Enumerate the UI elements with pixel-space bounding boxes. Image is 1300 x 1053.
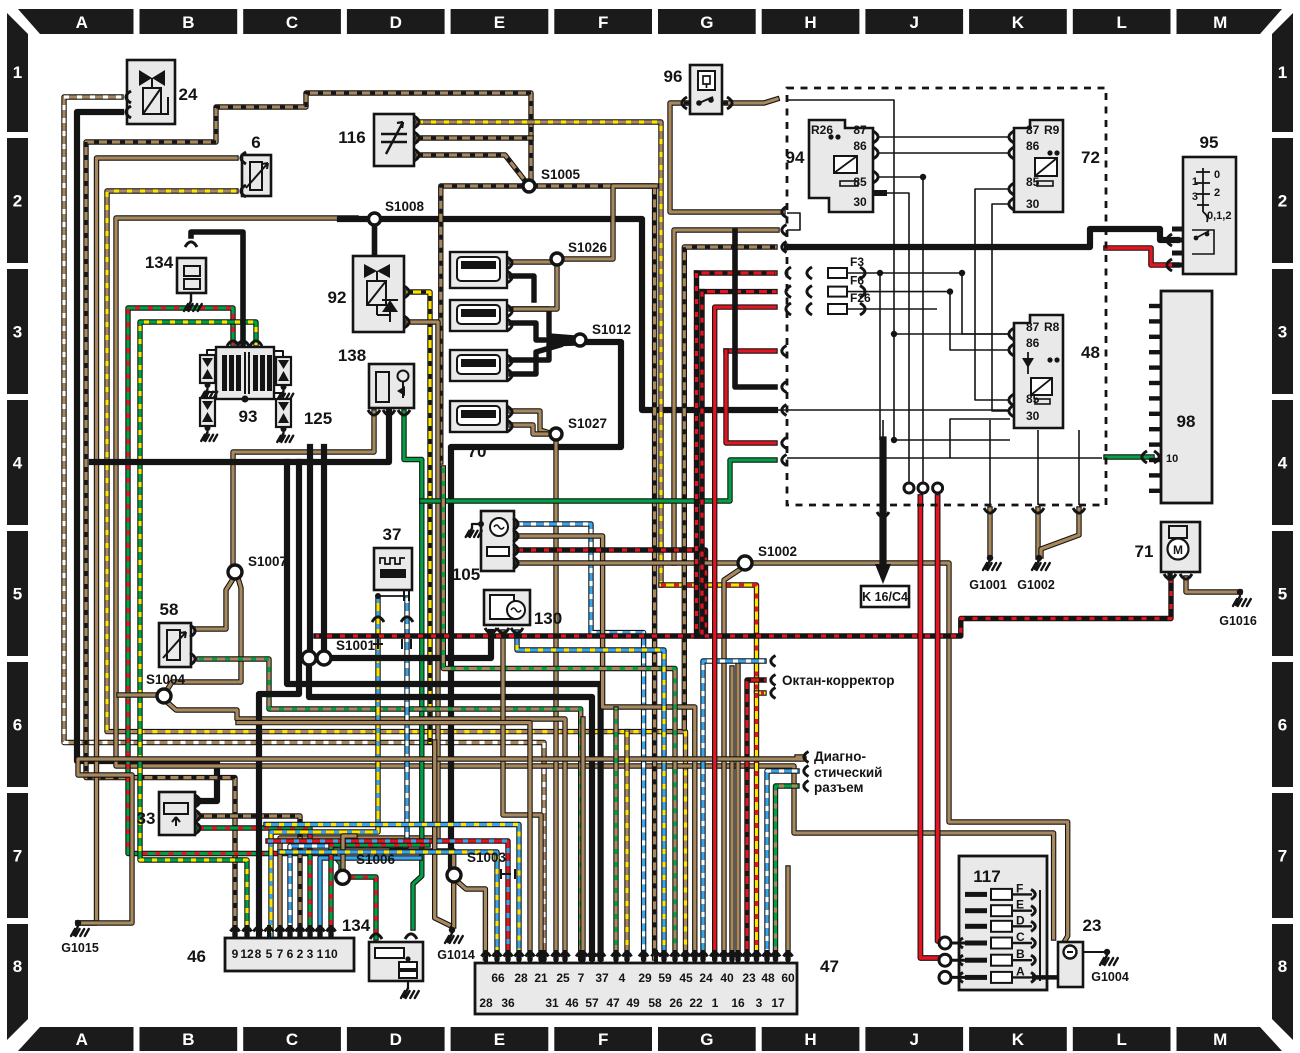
wire 105 pin3 red-black to junction bbox=[518, 550, 706, 636]
wire brown from S1008 down across to 23 bbox=[116, 218, 1054, 938]
svg-text:94: 94 bbox=[786, 148, 805, 167]
wire diode unit 125 c stem bbox=[283, 385, 285, 391]
relay 72 bbox=[1014, 120, 1063, 212]
wire 92 pin2 brown down to 46 pin5 bbox=[280, 322, 438, 938]
component 37 hall sender bbox=[374, 548, 412, 590]
svg-text:стический: стический bbox=[814, 765, 882, 780]
node S1003 bbox=[447, 868, 461, 882]
svg-text:86: 86 bbox=[853, 139, 867, 153]
svg-text:0: 0 bbox=[1214, 169, 1220, 181]
svg-text:K 16/C4: K 16/C4 bbox=[862, 590, 908, 604]
svg-text:G1016: G1016 bbox=[1219, 614, 1257, 628]
wire oktan1 blue-white bbox=[703, 661, 764, 958]
svg-text:48: 48 bbox=[761, 971, 775, 985]
svg-text:7: 7 bbox=[277, 947, 284, 961]
svg-text:48: 48 bbox=[1081, 343, 1100, 362]
wire 93 conn b bbox=[274, 351, 283, 357]
svg-text:J: J bbox=[910, 13, 919, 32]
node term2 bbox=[918, 483, 928, 493]
svg-text:87: 87 bbox=[1026, 123, 1040, 137]
fuse row B bbox=[965, 958, 987, 963]
wire red f26 feed and down to oktan/47 bbox=[715, 307, 775, 958]
svg-text:58: 58 bbox=[160, 600, 179, 619]
component 96 switch bbox=[690, 65, 722, 114]
wire brown S1004 left arm bbox=[119, 692, 158, 697]
wire brown 71 to G1016 bbox=[1186, 578, 1240, 592]
wire red 117 feed B bbox=[920, 497, 947, 958]
svg-text:6: 6 bbox=[251, 133, 260, 152]
wire 93 conn c bbox=[207, 392, 216, 398]
svg-text:S1012: S1012 bbox=[592, 322, 631, 337]
wire net f3 row bbox=[847, 273, 1010, 334]
wire inj4 pins to S1027 bbox=[511, 411, 550, 433]
wire row B arrow bbox=[1012, 959, 1032, 961]
svg-text:0,1,2: 0,1,2 bbox=[1207, 210, 1231, 222]
wire brown S1007 to 58 bbox=[196, 579, 233, 629]
wire red to 95 bbox=[1106, 248, 1177, 265]
svg-text:1: 1 bbox=[712, 996, 719, 1010]
wire black x310 to S1001 bbox=[307, 447, 313, 650]
svg-text:M: M bbox=[1213, 13, 1227, 32]
wire 95 sw bbox=[1196, 231, 1209, 238]
svg-text:12: 12 bbox=[240, 947, 254, 961]
wire 134a gnd stem bbox=[190, 293, 192, 301]
svg-text:117: 117 bbox=[973, 867, 1000, 886]
node S1008 bbox=[369, 213, 381, 225]
svg-text:24: 24 bbox=[699, 971, 713, 985]
svg-text:A: A bbox=[76, 1030, 88, 1049]
svg-text:R9: R9 bbox=[1044, 123, 1060, 137]
wire inj1 top pin to S1026 bbox=[511, 259, 551, 264]
svg-text:17: 17 bbox=[771, 996, 785, 1010]
ground diode unit 125 b gnd bbox=[201, 432, 217, 441]
svg-text:92: 92 bbox=[328, 288, 347, 307]
component 92 idle valve bbox=[353, 256, 404, 332]
component 71 fuel pump motor bbox=[1161, 522, 1200, 572]
svg-text:8: 8 bbox=[1278, 957, 1287, 976]
wire black x287 row684 to 47 pin604 bbox=[287, 462, 601, 958]
svg-text:37: 37 bbox=[383, 525, 402, 544]
wire brown-black 116 pin3 diagonal to S1005 bbox=[418, 155, 526, 182]
svg-text:F: F bbox=[598, 13, 608, 32]
svg-text:28: 28 bbox=[479, 996, 493, 1010]
wire 33 pin3 row to 46 pin8 bbox=[199, 828, 310, 938]
wire net k16 top bbox=[882, 420, 884, 445]
svg-text:M: M bbox=[1213, 1030, 1227, 1049]
K16/C4 reference box bbox=[861, 586, 909, 607]
wire net G1002 k1 bbox=[1037, 430, 1039, 505]
wire brown G1002b bbox=[1041, 509, 1079, 556]
svg-text:30: 30 bbox=[1026, 197, 1040, 211]
frame border bbox=[18, 9, 134, 34]
wire S1006 right red-green to 134b bbox=[350, 877, 376, 938]
ground G-134a bbox=[184, 301, 202, 311]
wire net 72-30 down bbox=[992, 204, 1010, 411]
node S1004 bbox=[157, 689, 171, 703]
svg-text:S1002: S1002 bbox=[758, 544, 797, 559]
fuse F3 bbox=[828, 268, 847, 278]
wire net 94-30 bbox=[886, 193, 909, 487]
inj3 bbox=[450, 350, 507, 381]
wire S1026 down brown bbox=[515, 265, 557, 309]
svg-text:F: F bbox=[598, 1030, 608, 1049]
wire green-brown row 668 to 47 pin675 bbox=[443, 468, 675, 958]
svg-text:23: 23 bbox=[742, 971, 756, 985]
wire black x735 bbox=[735, 231, 775, 387]
svg-text:M: M bbox=[1173, 543, 1183, 557]
svg-text:S1007: S1007 bbox=[248, 554, 287, 569]
wire brown-black S1005 left arm down bbox=[441, 186, 522, 462]
component 6 coolant temp sensor bbox=[242, 155, 271, 196]
wire net G1001 k bbox=[989, 420, 991, 505]
svg-text:98: 98 bbox=[1177, 412, 1196, 431]
wire brown 96 right to dashed box bbox=[726, 99, 777, 103]
svg-text:10: 10 bbox=[1166, 453, 1178, 465]
wire brown 96 down right bbox=[670, 103, 783, 212]
svg-text:S1008: S1008 bbox=[385, 199, 425, 214]
wire S1002 down brown to 47 bbox=[724, 568, 742, 958]
diode unit 125 b bbox=[200, 398, 215, 426]
svg-text:2: 2 bbox=[1278, 192, 1287, 211]
fuse F6 bbox=[828, 287, 847, 297]
component 134 capacitor top bbox=[177, 258, 206, 293]
wire net mid x880 bbox=[879, 273, 881, 440]
wire brown S1004 right row 719 to 47 bbox=[167, 702, 565, 958]
ground G1002 bbox=[1032, 560, 1050, 570]
svg-text:8: 8 bbox=[255, 947, 262, 961]
dashed control box bbox=[787, 88, 1106, 505]
svg-text:E: E bbox=[494, 1030, 505, 1049]
svg-text:3: 3 bbox=[1278, 323, 1287, 342]
wire diag2 blue-white bbox=[767, 771, 797, 958]
svg-text:33: 33 bbox=[137, 809, 156, 828]
wire 47 pin486 brown S1003 diag bbox=[458, 882, 485, 958]
wire 47 pin519 blue-yellow row bbox=[266, 825, 519, 959]
svg-text:H: H bbox=[804, 1030, 816, 1049]
svg-text:7: 7 bbox=[1278, 847, 1287, 866]
wire yellow-red vertical to 47 pin bbox=[754, 693, 759, 958]
svg-text:6: 6 bbox=[1278, 716, 1287, 735]
svg-text:8: 8 bbox=[13, 957, 22, 976]
wire row D arrow bbox=[1012, 925, 1032, 927]
svg-text:134: 134 bbox=[342, 916, 371, 935]
wire green-yellow row to 93 and down to 46 pin2 bbox=[140, 322, 256, 938]
svg-text:87: 87 bbox=[1026, 320, 1040, 334]
wire net f6 row bbox=[847, 292, 1010, 350]
wire 47 pin497 blue-yellow row bbox=[280, 852, 497, 958]
wire net 48-30 left bbox=[950, 419, 1010, 458]
wire 46 pin10 red-green bbox=[331, 845, 428, 938]
wire oktan2 red-black bbox=[747, 680, 764, 958]
wire black 138 mid row 462 bbox=[92, 412, 389, 462]
connector 46 bbox=[225, 938, 354, 971]
svg-text:D: D bbox=[390, 13, 402, 32]
svg-text:59: 59 bbox=[658, 971, 672, 985]
svg-text:2: 2 bbox=[297, 947, 304, 961]
wire brown 138 to S1007 bbox=[233, 412, 374, 566]
svg-text:16: 16 bbox=[731, 996, 745, 1010]
wire row A arrow bbox=[1012, 976, 1032, 978]
svg-text:H: H bbox=[804, 13, 816, 32]
svg-text:25: 25 bbox=[556, 971, 570, 985]
ground G-134b bbox=[401, 988, 419, 998]
svg-text:L: L bbox=[1116, 13, 1126, 32]
svg-text:105: 105 bbox=[452, 565, 480, 584]
svg-text:96: 96 bbox=[664, 67, 683, 86]
wire net bracket bbox=[787, 213, 800, 230]
svg-text:29: 29 bbox=[638, 971, 652, 985]
wire row F arrow bbox=[1012, 893, 1032, 895]
svg-text:K: K bbox=[1012, 1030, 1025, 1049]
wire brown S1007 down to S1004 bbox=[167, 578, 241, 690]
wire 105 gnd stem bbox=[472, 524, 481, 528]
ground G-105 bbox=[466, 528, 482, 537]
svg-text:R8: R8 bbox=[1044, 320, 1060, 334]
svg-text:K: K bbox=[1012, 13, 1025, 32]
svg-text:85: 85 bbox=[853, 175, 867, 189]
svg-text:26: 26 bbox=[669, 996, 683, 1010]
wire net 72-85 down bbox=[975, 189, 1010, 400]
wire inj3 pin2 bbox=[511, 345, 560, 374]
svg-text:S1003: S1003 bbox=[467, 850, 507, 865]
svg-text:C: C bbox=[286, 13, 298, 32]
svg-text:4: 4 bbox=[13, 454, 23, 473]
wire inj2 pin2 to S1012 bbox=[511, 323, 574, 340]
svg-text:S1026: S1026 bbox=[568, 240, 608, 255]
svg-text:2: 2 bbox=[1214, 187, 1220, 199]
svg-text:S1001: S1001 bbox=[336, 638, 376, 653]
wire brown-yellow from 6 down across to 47 bbox=[107, 191, 686, 958]
wire 37 left yellow-blue to 46 pin4 bbox=[271, 598, 378, 938]
wire yellow-red to oktan bbox=[661, 585, 764, 693]
wire net 48-87 row bbox=[894, 333, 1010, 335]
component 138 fuel pressure regulator bbox=[369, 364, 414, 408]
wire 47 pin583 brown T bbox=[580, 719, 585, 958]
wire brown S1026 up right bbox=[563, 186, 656, 259]
wire row A left ext bbox=[942, 976, 965, 979]
wire red x726 down bbox=[726, 351, 775, 443]
inj1 bbox=[450, 252, 507, 288]
svg-text:B: B bbox=[182, 13, 194, 32]
fuse row D bbox=[965, 924, 987, 929]
ground diode unit 125 d gnd bbox=[277, 433, 293, 442]
wire brown-black 684 descender bbox=[684, 247, 775, 728]
wire black from 24 down to 33 bbox=[77, 112, 217, 801]
wire brown-black from S1005 left loop down to 46 pin1 bbox=[86, 93, 531, 938]
svg-text:22: 22 bbox=[689, 996, 703, 1010]
svg-text:24: 24 bbox=[179, 85, 198, 104]
wire brown-white from 24 down and across to 47 bbox=[64, 97, 544, 958]
inj2 bbox=[450, 300, 507, 331]
svg-text:93: 93 bbox=[239, 407, 258, 426]
svg-text:95: 95 bbox=[1200, 133, 1219, 152]
svg-text:116: 116 bbox=[338, 128, 365, 147]
wire net 94-86 to 72-86 bbox=[877, 152, 1010, 154]
wire brown G1002a bbox=[1035, 509, 1040, 557]
svg-text:60: 60 bbox=[781, 971, 795, 985]
wire inj1 low pin down bbox=[511, 276, 534, 300]
wire 47 pin508 red-blue row bbox=[268, 841, 508, 958]
label diagnostic connector bbox=[804, 752, 809, 763]
node term1 bbox=[904, 483, 914, 493]
svg-text:6: 6 bbox=[287, 947, 294, 961]
svg-text:G: G bbox=[700, 1030, 713, 1049]
wire S1006 up brown bbox=[343, 836, 355, 869]
svg-text:46: 46 bbox=[565, 996, 579, 1010]
svg-text:10: 10 bbox=[324, 947, 338, 961]
wire S1003 up brown row bbox=[392, 851, 454, 868]
wire black x299 row694 to 46 pin3 bbox=[259, 462, 299, 938]
svg-text:87: 87 bbox=[853, 123, 867, 137]
svg-text:30: 30 bbox=[1026, 409, 1040, 423]
wire black K16 arrow bbox=[879, 440, 886, 568]
component 58 temp sensor bbox=[159, 623, 191, 667]
node S1007 bbox=[228, 565, 242, 579]
node S1002 bbox=[738, 556, 752, 570]
svg-text:130: 130 bbox=[534, 609, 562, 628]
svg-text:57: 57 bbox=[585, 996, 599, 1010]
ground G1015 bbox=[71, 926, 89, 936]
wire green 138 down to 134b bbox=[404, 412, 422, 928]
wire net G1002 k2 bbox=[1078, 430, 1080, 505]
node S1006 bbox=[336, 870, 350, 884]
wire net f26 row bbox=[847, 308, 937, 310]
wire inj4 pin2 bbox=[511, 425, 549, 434]
svg-text:7: 7 bbox=[13, 847, 22, 866]
node term3 bbox=[933, 483, 943, 493]
component 95 gear selector switch bbox=[1183, 157, 1236, 274]
wire red-black vertical x702 bbox=[699, 292, 704, 636]
svg-text:G1015: G1015 bbox=[61, 941, 99, 955]
inj4 bbox=[450, 401, 507, 432]
svg-text:B: B bbox=[182, 1030, 194, 1049]
svg-text:72: 72 bbox=[1081, 148, 1100, 167]
svg-text:1: 1 bbox=[13, 63, 22, 82]
wire black x324 to S1001b bbox=[321, 447, 327, 650]
wire brown-green 58 row709 to 47 bbox=[199, 659, 581, 958]
wire brown filler 47 pin738 bbox=[735, 665, 740, 958]
wire diag1 brown G1015 long row bbox=[78, 757, 804, 923]
svg-text:1: 1 bbox=[1192, 176, 1198, 188]
wire 47 pin616 brown-green T bbox=[613, 709, 618, 958]
wire net 96 in right bbox=[787, 100, 1010, 440]
wire brown bracket descender bbox=[674, 230, 777, 563]
svg-text:1: 1 bbox=[1278, 63, 1287, 82]
wire 96 pins bbox=[684, 102, 690, 105]
svg-text:9: 9 bbox=[232, 947, 239, 961]
svg-text:4: 4 bbox=[619, 971, 626, 985]
wire G1014 brown vert2 bbox=[435, 742, 449, 925]
wire 46 pin9 blue bbox=[320, 858, 420, 938]
wire 96 contact bbox=[699, 97, 713, 103]
wire red 48-86 feed bbox=[726, 348, 775, 353]
svg-text:S1027: S1027 bbox=[568, 416, 607, 431]
ground G1014 bbox=[445, 933, 463, 943]
svg-text:G1002: G1002 bbox=[1017, 578, 1055, 592]
diode unit 125 c bbox=[276, 357, 291, 385]
svg-text:28: 28 bbox=[514, 971, 528, 985]
svg-text:D: D bbox=[390, 1030, 402, 1049]
wire S1002 right brown to 23 bbox=[750, 563, 1068, 944]
diode unit 125 d bbox=[276, 399, 291, 427]
svg-text:разъем: разъем bbox=[814, 780, 863, 795]
wire 33 pin2 row to 46 pin7 bbox=[199, 816, 300, 938]
node S1001b bbox=[317, 651, 331, 665]
wire row B left ext bbox=[942, 959, 965, 962]
wire diode unit 125 a stem bbox=[207, 383, 209, 389]
svg-text:138: 138 bbox=[338, 346, 366, 365]
label oktan-korrektor bbox=[771, 656, 776, 667]
svg-text:47: 47 bbox=[606, 996, 620, 1010]
svg-text:6: 6 bbox=[13, 716, 22, 735]
svg-text:134: 134 bbox=[145, 253, 174, 272]
wire inj3 pins to S1012 bbox=[511, 343, 575, 360]
wire net green row bbox=[787, 457, 1102, 459]
wire green branch to 98 bbox=[422, 460, 775, 501]
ground diode unit 125 c gnd bbox=[277, 391, 293, 400]
wire green to 98 pin10 bbox=[1106, 454, 1152, 459]
svg-text:3: 3 bbox=[1192, 191, 1198, 203]
svg-text:5: 5 bbox=[266, 947, 273, 961]
svg-text:5: 5 bbox=[1278, 585, 1287, 604]
wire brown filler 47 pin732 bbox=[729, 668, 734, 958]
wire 37 capline bbox=[378, 595, 404, 597]
wire diag3 green-brown bbox=[776, 786, 798, 958]
svg-text:37: 37 bbox=[595, 971, 609, 985]
node S1001a bbox=[302, 651, 316, 665]
wire 93 conn a bbox=[207, 350, 216, 355]
wire brown G1001 bbox=[987, 509, 992, 557]
svg-text:A: A bbox=[76, 13, 88, 32]
svg-text:4: 4 bbox=[1278, 454, 1288, 473]
component 134 ignition module bbox=[369, 942, 423, 981]
svg-text:1: 1 bbox=[317, 947, 324, 961]
component 23 ground point bbox=[1058, 942, 1083, 987]
wire brown-black 116 pin2 bbox=[418, 135, 531, 140]
fuse row C bbox=[965, 941, 987, 946]
svg-text:S1006: S1006 bbox=[356, 852, 396, 867]
component 24 carbon canister valve bbox=[127, 60, 175, 124]
wire 23 to G1004 bbox=[1083, 951, 1107, 953]
svg-text:70: 70 bbox=[468, 442, 487, 461]
ground G1016 bbox=[1233, 596, 1251, 606]
wire black S1008 stub to 92 bbox=[372, 222, 378, 258]
wire 105 pin4 brown to S1002 bbox=[518, 560, 741, 565]
svg-text:G: G bbox=[700, 13, 713, 32]
svg-text:30: 30 bbox=[853, 195, 867, 209]
wire net 94-85 down bbox=[877, 177, 923, 487]
svg-text:J: J bbox=[910, 1030, 919, 1049]
wire brown-black S1005 right down middle to 47 bbox=[533, 186, 655, 958]
ground diode unit 125 a gnd bbox=[201, 389, 217, 398]
wire 37 right blue to 46 pin6 bbox=[290, 598, 407, 938]
svg-text:31: 31 bbox=[545, 996, 559, 1010]
wire G1014 brown stem bbox=[451, 882, 456, 926]
node S1012 bbox=[574, 334, 586, 346]
wire row C arrow bbox=[1012, 942, 1032, 944]
wire 92 pin1 yellow-black down bbox=[408, 292, 430, 742]
svg-text:86: 86 bbox=[1026, 336, 1040, 350]
wire black S1012 down-left long to S1003 bbox=[451, 342, 621, 868]
svg-text:Октан-корректор: Октан-корректор bbox=[782, 673, 895, 688]
svg-text:58: 58 bbox=[648, 996, 662, 1010]
wire 130 pin3 blue-yellow to 47 bbox=[517, 632, 664, 958]
svg-text:125: 125 bbox=[304, 409, 332, 428]
connector 47 bbox=[475, 963, 797, 1014]
svg-text:66: 66 bbox=[491, 971, 505, 985]
wire red f3 feed bbox=[697, 270, 776, 275]
wire red-black vertical x696 bbox=[694, 273, 699, 636]
